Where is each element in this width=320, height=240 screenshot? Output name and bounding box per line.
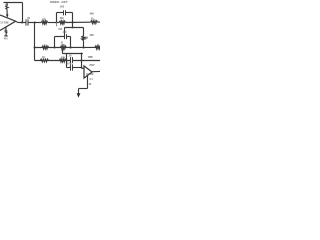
capacitor C3 left plate <box>64 34 66 39</box>
wire C3 net left <box>55 36 65 38</box>
wire drop x81.5 to line E <box>81 54 83 68</box>
capacitor C2 left plate <box>63 10 65 15</box>
svg-text:1M: 1M <box>5 5 8 7</box>
wire drop to line B <box>72 22 74 27</box>
wire C3 right drop <box>70 37 72 48</box>
svg-text:.05: .05 <box>68 56 72 58</box>
resistor R5 <box>59 59 66 62</box>
wire line B right corner drop <box>83 28 85 36</box>
wire D right <box>73 60 101 62</box>
wire grid tap vertical <box>62 48 64 54</box>
svg-text:0.1: 0.1 <box>90 79 94 81</box>
svg-text:1M: 1M <box>85 38 88 40</box>
svg-text:.003: .003 <box>60 7 65 9</box>
wire drop x66.5 to wire D <box>66 54 68 68</box>
wire line E left <box>67 67 71 69</box>
capacitor C5 left plate <box>70 64 72 70</box>
wire cathode down <box>87 75 89 88</box>
node wire A right junction <box>72 21 74 23</box>
wire bypass left vertical <box>56 13 58 23</box>
wire C3 left drop <box>54 37 56 48</box>
wire A mid <box>48 22 60 24</box>
svg-text:.05: .05 <box>27 18 31 20</box>
resistor R9 on line C <box>60 46 66 49</box>
wire pot drop <box>6 3 8 6</box>
wire A after C1 <box>28 22 41 24</box>
capacitor C4 left plate <box>70 57 72 63</box>
node on line C left <box>34 47 36 49</box>
node main drop junction <box>34 22 36 24</box>
capacitor C1 right plate <box>27 19 29 25</box>
wire line B <box>65 27 84 29</box>
svg-text:25K: 25K <box>90 35 95 37</box>
wire bypass top left <box>57 12 64 14</box>
wire bypass top right <box>66 12 73 14</box>
ground <box>4 35 8 37</box>
node tap junction <box>56 22 58 24</box>
op-amp U1 top edge <box>0 15 16 21</box>
wire A <box>18 22 26 24</box>
wire D left <box>35 60 71 62</box>
resistor R10 line C edge <box>95 46 101 49</box>
node on 53 line <box>81 53 83 55</box>
resistor R8 on line C <box>42 46 49 49</box>
node grid tap <box>62 49 64 51</box>
svg-text:1/2 TUBE: 1/2 TUBE <box>86 74 94 76</box>
wire apex jog <box>16 21 18 22</box>
arrow to supply <box>77 93 81 97</box>
capacitor C1 left plate <box>25 19 27 25</box>
svg-text:47K: 47K <box>42 18 47 21</box>
wire line C <box>35 46 101 48</box>
wiper arrow into U1 <box>6 14 9 17</box>
wire R6 to line C <box>83 40 85 47</box>
svg-text:1K: 1K <box>89 84 92 86</box>
capacitor C5 right plate <box>72 64 74 70</box>
capacitor C3 right plate <box>66 34 68 39</box>
wire main vertical drop <box>34 23 36 61</box>
node feedback junction <box>21 22 23 24</box>
resistor cathode RK1 <box>5 30 7 34</box>
node line C right junction <box>83 47 85 49</box>
wire C3 right <box>67 36 71 38</box>
wire grid tap horizontal <box>63 53 83 55</box>
svg-text:10K: 10K <box>61 45 66 47</box>
svg-text:100: 100 <box>58 29 63 31</box>
svg-text:.05 M: .05 M <box>66 64 72 66</box>
wire tap stub <box>56 23 58 26</box>
node wire D at 66.5 <box>66 60 68 62</box>
node line B junction <box>72 27 74 29</box>
wire line B left drop to C3 <box>64 28 66 37</box>
svg-text:46K: 46K <box>90 12 95 15</box>
resistor pot element <box>6 6 8 10</box>
op-amp U2 triangle <box>84 66 92 78</box>
svg-text:1K: 1K <box>43 46 46 48</box>
op-amp U1 bottom edge <box>0 21 16 30</box>
wire feedback vertical stage1 <box>22 3 24 23</box>
wire top rail stage1 <box>4 2 23 4</box>
svg-text:1/2 TUBE: 1/2 TUBE <box>0 23 9 25</box>
capacitor C4 right plate <box>72 57 74 63</box>
wire input jog <box>81 67 83 70</box>
node line E junction <box>81 67 83 69</box>
wire output U2 <box>92 70 100 72</box>
svg-text:1K: 1K <box>42 57 45 59</box>
resistor R2 <box>59 21 65 24</box>
wire input to U2 <box>82 67 85 69</box>
wire pot arrow shaft <box>6 9 8 15</box>
resistor R1 <box>41 21 47 24</box>
svg-text:47K: 47K <box>61 56 66 59</box>
svg-text:100: 100 <box>63 32 68 34</box>
svg-text:250V: 250V <box>89 65 95 67</box>
node C3 left on line C <box>54 47 56 49</box>
resistor R3 <box>91 21 98 24</box>
capacitor C2 right plate <box>65 10 67 15</box>
wire A edge tail <box>98 21 100 23</box>
wire bypass right vertical <box>72 13 74 23</box>
svg-text:22K: 22K <box>60 18 65 20</box>
resistor R6 vertical <box>82 36 85 41</box>
resistor R4 <box>40 59 48 62</box>
wire RK1 to ground <box>5 33 7 35</box>
wire A right <box>66 21 91 23</box>
node wire D at 81.5 <box>81 60 83 62</box>
wire cathode left <box>79 88 88 90</box>
wire cathode stem U1 <box>5 28 7 30</box>
wire line E right <box>73 67 82 69</box>
svg-text:470: 470 <box>4 37 9 40</box>
svg-text:TMB: TMB <box>88 57 93 59</box>
node C3 right on line C <box>70 47 72 49</box>
arrow tap stub <box>56 25 58 27</box>
svg-text:MXER - CKT: MXER - CKT <box>50 2 68 4</box>
wire cathode drop <box>78 89 80 94</box>
